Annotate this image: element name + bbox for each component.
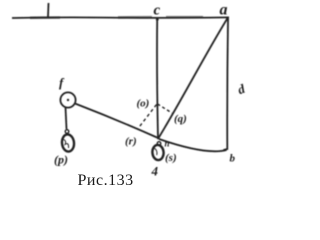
svg-text:b: b	[230, 153, 236, 165]
node a junction blob	[226, 18, 229, 21]
svg-text:(p): (p)	[54, 153, 68, 167]
svg-text:f: f	[59, 75, 65, 90]
dashed line o to q side	[158, 104, 173, 113]
weight s	[152, 144, 164, 160]
ceiling line thickness variation	[30, 16, 203, 19]
wire f to n (rope over pulley)	[75, 104, 157, 138]
svg-text:(o): (o)	[137, 98, 150, 110]
svg-text:n: n	[165, 139, 170, 149]
svg-text:d: d	[235, 81, 247, 97]
wire n to b (curved string)	[159, 139, 227, 151]
weight p hook	[65, 130, 69, 134]
wire a to b (right vertical)	[224, 19, 229, 150]
weight p	[61, 134, 75, 152]
dashed line o to r side	[138, 105, 157, 129]
svg-text:c: c	[154, 3, 161, 19]
pulley f	[60, 92, 75, 107]
node n junction blob	[157, 137, 160, 140]
wire a to n (diagonal string)	[159, 19, 228, 138]
weight s hook	[157, 142, 161, 146]
svg-text:a: a	[220, 2, 228, 19]
svg-text:(r): (r)	[125, 136, 137, 148]
node c junction blob	[156, 18, 159, 21]
ceiling tick	[47, 3, 50, 17]
svg-text:(s): (s)	[165, 152, 177, 164]
ceiling line	[12, 16, 229, 19]
wire c to n (vertical string)	[156, 18, 159, 138]
svg-text:Рис.133: Рис.133	[78, 172, 134, 189]
wire f to p (hanging rope)	[66, 108, 67, 130]
svg-text:4: 4	[151, 164, 159, 179]
svg-text:(q): (q)	[174, 113, 187, 125]
